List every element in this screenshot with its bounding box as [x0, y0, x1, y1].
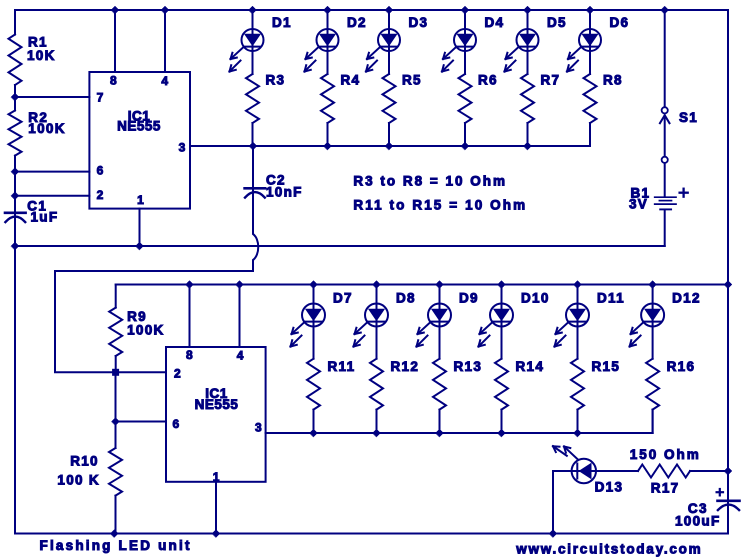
svg-text:D2: D2 [347, 15, 367, 30]
svg-text:D4: D4 [485, 15, 505, 30]
svg-text:2: 2 [174, 367, 182, 381]
svg-text:8: 8 [110, 73, 118, 87]
svg-text:R15: R15 [592, 359, 621, 374]
svg-text:R13: R13 [454, 359, 483, 374]
svg-text:8: 8 [186, 348, 194, 362]
svg-text:R16: R16 [667, 359, 696, 374]
svg-text:R14: R14 [516, 359, 545, 374]
svg-text:D6: D6 [610, 15, 630, 30]
svg-text:R5: R5 [402, 73, 422, 88]
svg-text:R10: R10 [70, 453, 99, 468]
svg-text:150 Ohm: 150 Ohm [630, 447, 701, 462]
svg-text:1: 1 [137, 193, 145, 207]
svg-text:7: 7 [97, 90, 105, 104]
svg-text:R17: R17 [651, 481, 680, 496]
svg-text:D8: D8 [396, 291, 416, 306]
svg-text:D1: D1 [272, 15, 292, 30]
svg-text:www.circuitstoday.com: www.circuitstoday.com [515, 542, 702, 557]
svg-text:D7: D7 [333, 291, 353, 306]
svg-text:R7: R7 [541, 73, 561, 88]
svg-text:100 K: 100 K [57, 473, 100, 488]
svg-text:R4: R4 [341, 73, 361, 88]
svg-text:100K: 100K [127, 323, 164, 338]
svg-text:10K: 10K [27, 48, 56, 63]
svg-text:100uF: 100uF [675, 514, 721, 529]
svg-text:S1: S1 [679, 110, 698, 125]
svg-text:R6: R6 [478, 73, 498, 88]
svg-text:D3: D3 [409, 15, 429, 30]
svg-text:10nF: 10nF [266, 185, 303, 200]
svg-text:D10: D10 [521, 291, 550, 306]
svg-text:100K: 100K [28, 121, 65, 136]
svg-text:3: 3 [255, 421, 263, 435]
svg-text:1: 1 [213, 470, 221, 484]
svg-text:6: 6 [97, 163, 105, 177]
svg-text:R3: R3 [266, 73, 286, 88]
svg-text:D9: D9 [459, 291, 479, 306]
svg-text:D5: D5 [547, 15, 567, 30]
svg-text:2: 2 [97, 188, 105, 202]
svg-text:D11: D11 [597, 291, 625, 306]
svg-text:R12: R12 [391, 359, 420, 374]
svg-text:R3 to R8 = 10 Ohm: R3 to R8 = 10 Ohm [353, 173, 507, 188]
svg-text:Flashing LED unit: Flashing LED unit [40, 538, 192, 553]
svg-text:6: 6 [173, 417, 181, 431]
svg-text:3V: 3V [629, 196, 648, 211]
svg-text:NE555: NE555 [117, 119, 161, 134]
svg-text:4: 4 [237, 349, 245, 363]
svg-text:R11: R11 [328, 359, 356, 374]
svg-text:D13: D13 [595, 480, 624, 495]
svg-text:R8: R8 [603, 73, 623, 88]
svg-text:3: 3 [179, 140, 187, 154]
svg-text:R11 to R15 = 10 Ohm: R11 to R15 = 10 Ohm [353, 197, 527, 212]
svg-text:1uF: 1uF [31, 210, 59, 225]
svg-text:NE555: NE555 [195, 397, 239, 412]
svg-text:4: 4 [161, 74, 169, 88]
svg-text:D12: D12 [672, 291, 701, 306]
